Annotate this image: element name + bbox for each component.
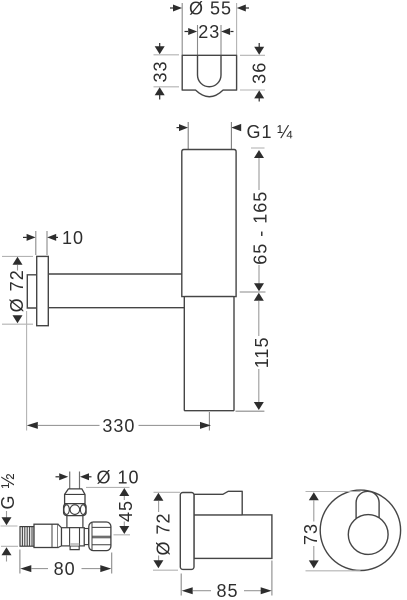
dim 80 left arrow [20,565,31,572]
siphon lower tube [184,297,234,411]
dim 45 top arrow [119,488,129,496]
dim Ø72 bottom arrow [13,315,23,323]
dim 80 line right [82,568,101,570]
valve knob connector [84,529,88,545]
dim Ø72 (side) line [158,501,160,512]
dim 36 top arrow [258,43,260,47]
svg-text:G1 ¼: G1 ¼ [247,122,294,142]
dim 36 bottom extension line [240,89,265,91]
valve bottom outlet [70,546,79,550]
dim Ø72 (side) bottom extension line [153,569,178,571]
dim 65-165 line lower [258,265,260,284]
svg-text:80: 80 [54,559,76,579]
dim 330 right extension line (tube axis) [208,412,210,431]
dim Ø72 (side) top extension line [154,491,181,493]
svg-text:45: 45 [116,500,136,522]
dim 45 top extension line [86,486,130,488]
dim 73 line lower [313,546,315,562]
dim G1 1/4 left arrow [177,127,180,129]
dim Ø10 right arrow [88,476,92,478]
dim 85 right arrow [261,587,272,594]
dim 45 bottom extension line [114,534,131,536]
dim 85 right extension line [271,561,273,596]
dim 85 line right [244,590,261,592]
joint extension line [240,291,266,293]
valve compression cap [65,489,85,504]
dim 330 line right [139,424,201,426]
front view outer circle [320,490,400,570]
dim 33 bottom arrow [159,95,161,100]
svg-text:73: 73 [301,523,321,545]
front view stem [356,491,379,518]
dim 23 left arrow [185,31,189,33]
dim G1 1/4 right arrow [231,124,241,131]
wall pipe stub [27,275,36,308]
dim Ø72 (side) bottom arrow [153,560,163,568]
dim 330 line left [38,424,100,426]
valve male thread G1/2 [20,527,34,547]
dim 23 extension lines [197,25,199,55]
dim 65-165 bottom arrow [254,283,264,291]
dim Ø55 extension line left [181,3,183,55]
dim 115 top arrow [254,293,264,301]
dim G1 1/4 extension lines [187,122,189,149]
svg-text:65 - 165: 65 - 165 [251,191,271,265]
dim 115 bottom extension line [236,410,265,412]
svg-text:33: 33 [150,60,170,82]
dim 115 bottom arrow [254,402,264,410]
dim Ø55 extension line right [236,3,238,55]
svg-text:10: 10 [62,228,84,248]
dim 73 bottom arrow [309,560,319,568]
dim 45 bottom arrow [123,522,125,527]
dim 330 right arrow [200,422,211,429]
dim 115 line lower [258,369,260,403]
dim 10 extension lines [35,231,37,255]
dim 80 line left [31,568,48,570]
dim 33 top arrow [159,43,161,47]
svg-text:115: 115 [252,337,272,369]
svg-text:Ø 72: Ø 72 [7,269,27,312]
dim 330 left extension line [26,311,28,431]
dim Ø55 right arrow [245,7,249,9]
front view inner circle [348,515,388,555]
dim 10 right arrow [55,236,58,238]
svg-text:Ø 55: Ø 55 [189,0,232,19]
dim Ø72 top arrow [13,257,23,265]
dim 73 line upper [313,500,315,521]
dim Ø72 (side) top arrow [153,493,163,501]
dim G1/2 bottom arrow [2,547,12,555]
dim 85 left arrow [182,587,193,594]
svg-text:Ø 72: Ø 72 [153,512,173,555]
dim 80 left extension line [19,550,21,574]
dim 85 line left [193,590,211,592]
svg-text:Ø 10: Ø 10 [97,467,140,487]
valve mid body [62,528,85,546]
bracket U cutout [198,55,222,86]
dim 80 right arrow [100,565,111,572]
side flange [180,493,194,570]
dim 330 left arrow [27,422,38,429]
bracket body top view [182,55,236,96]
dim 65-165 line upper [258,158,260,190]
svg-text:330: 330 [102,416,135,436]
valve knurled knob [89,522,111,551]
dim 73 bottom extension line [306,570,361,572]
dim 80 right extension line [111,553,113,574]
valve body chamfer [58,524,62,547]
horizontal pipe bottom line [48,307,184,309]
dim G1/2 extension lines [1,525,18,527]
svg-text:36: 36 [249,62,269,84]
dim G1/2 top arrow [6,511,8,518]
dim Ø10 left arrow [56,476,60,478]
valve top pipe lines [69,472,71,490]
dim 33 bottom extension line [154,86,180,88]
horizontal pipe top line [48,273,182,275]
svg-text:23: 23 [198,22,220,42]
dim 10 left arrow [23,236,27,238]
svg-text:G ½: G ½ [0,472,18,509]
wall flange (escutcheon) [37,256,49,325]
siphon upper tube [182,150,236,297]
outlet upper block [194,491,242,515]
dim 36 top extension line [240,54,265,56]
valve neck column [66,516,68,528]
dim 65-165 top extension line [251,147,265,149]
dim 73 top extension line [306,491,361,493]
dim 33 top extension line [154,54,180,56]
dim 73 top arrow [309,492,319,500]
dim Ø72 top extension line [2,255,33,257]
dim Ø72 bottom extension line [2,323,33,325]
dim 36 bottom arrow [258,98,260,102]
outlet main body [194,515,272,559]
svg-text:85: 85 [216,581,238,600]
dim 115 line upper [258,301,260,336]
dim 65-165 top arrow [254,150,264,158]
dim 23 right arrow [231,31,234,33]
dim 85 left extension line [180,574,182,596]
valve hex body [34,524,58,547]
valve union nut with spheres [64,504,87,516]
dim Ø55 left arrow [170,7,174,9]
valve center insert [70,528,80,546]
